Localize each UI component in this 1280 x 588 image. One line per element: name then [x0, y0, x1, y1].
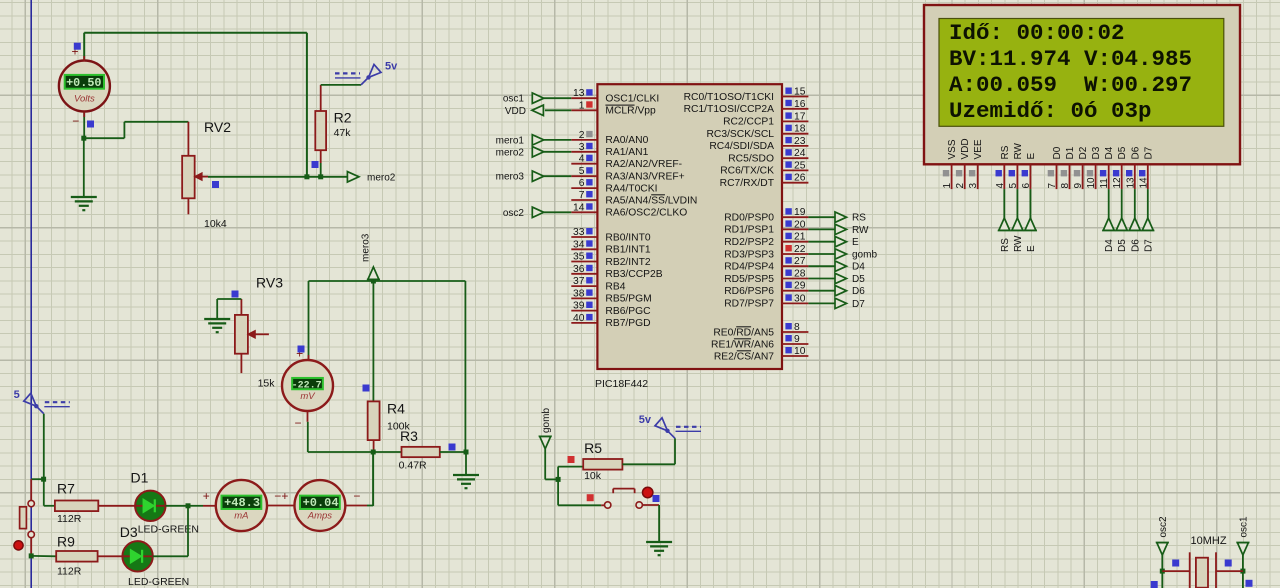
svg-text:gomb: gomb: [541, 408, 552, 433]
svg-text:LED-GREEN: LED-GREEN: [138, 524, 199, 536]
svg-text:RD5/PSP5: RD5/PSP5: [724, 274, 774, 285]
svg-text:−: −: [353, 489, 360, 503]
svg-text:RS: RS: [1000, 145, 1011, 159]
svg-text:mero1: mero1: [496, 135, 525, 146]
svg-text:D4: D4: [1104, 239, 1115, 252]
svg-text:osc2: osc2: [1158, 516, 1169, 538]
svg-text:RS: RS: [852, 213, 866, 224]
svg-text:3: 3: [968, 183, 979, 189]
svg-text:11: 11: [1099, 178, 1110, 189]
svg-text:RB2/INT2: RB2/INT2: [605, 257, 650, 268]
svg-text:D4: D4: [852, 262, 865, 273]
svg-text:−: −: [274, 489, 281, 503]
svg-text:+0.50: +0.50: [66, 76, 101, 90]
svg-text:RD4/PSP4: RD4/PSP4: [724, 262, 774, 273]
svg-text:1: 1: [942, 183, 953, 189]
svg-text:RB0/INT0: RB0/INT0: [605, 232, 650, 243]
svg-text:5: 5: [14, 389, 20, 401]
svg-text:osc1: osc1: [1238, 516, 1249, 538]
svg-text:12: 12: [1112, 177, 1123, 189]
svg-text:+: +: [281, 489, 288, 503]
svg-text:RD2/PSP2: RD2/PSP2: [724, 237, 774, 248]
svg-text:19: 19: [794, 207, 806, 218]
svg-text:D0: D0: [1052, 146, 1063, 159]
svg-text:Uzemidő: 0ó 03p: Uzemidő: 0ó 03p: [949, 98, 1152, 124]
svg-text:osc2: osc2: [503, 208, 525, 219]
svg-text:RA4/T0CKI: RA4/T0CKI: [605, 183, 657, 194]
svg-text:mero2: mero2: [496, 147, 525, 158]
svg-text:RB1/INT1: RB1/INT1: [605, 245, 650, 256]
svg-text:8: 8: [794, 322, 800, 333]
svg-text:38: 38: [573, 288, 585, 299]
svg-text:4: 4: [579, 154, 585, 165]
svg-text:RC7/RX/DT: RC7/RX/DT: [720, 178, 775, 189]
svg-text:VDD: VDD: [960, 138, 971, 159]
svg-text:40: 40: [573, 313, 585, 324]
svg-text:23: 23: [794, 136, 806, 147]
svg-text:D5: D5: [1117, 146, 1128, 159]
svg-text:14: 14: [1138, 177, 1149, 189]
svg-text:RW: RW: [1013, 235, 1024, 252]
svg-text:Volts: Volts: [74, 93, 95, 104]
svg-text:A:00.059 W:00.297: A:00.059 W:00.297: [949, 72, 1192, 98]
svg-text:7: 7: [1047, 183, 1058, 189]
svg-text:D5: D5: [1117, 239, 1128, 252]
svg-text:VSS: VSS: [947, 139, 958, 159]
svg-text:R4: R4: [387, 401, 405, 417]
svg-text:RW: RW: [1013, 142, 1024, 159]
svg-text:D7: D7: [1143, 239, 1154, 252]
svg-text:D3: D3: [120, 524, 138, 540]
svg-text:39: 39: [573, 301, 585, 312]
svg-text:D6: D6: [1130, 146, 1141, 159]
svg-text:4: 4: [995, 183, 1006, 189]
svg-text:D1: D1: [1065, 146, 1076, 159]
svg-text:15k: 15k: [258, 378, 276, 390]
svg-text:2: 2: [955, 183, 966, 189]
svg-text:RV2: RV2: [204, 119, 231, 135]
svg-text:RA5/AN4/SS/LVDIN: RA5/AN4/SS/LVDIN: [605, 195, 697, 206]
svg-text:25: 25: [794, 160, 806, 171]
svg-text:RW: RW: [852, 225, 869, 236]
svg-text:24: 24: [794, 148, 806, 159]
svg-text:1: 1: [579, 100, 585, 111]
svg-text:10k: 10k: [584, 470, 602, 482]
svg-text:112R: 112R: [57, 566, 82, 578]
svg-text:+0.04: +0.04: [303, 496, 339, 510]
svg-text:BV:11.974 V:04.985: BV:11.974 V:04.985: [949, 46, 1192, 72]
svg-text:RC6/TX/CK: RC6/TX/CK: [720, 166, 774, 177]
svg-text:RS: RS: [1000, 238, 1011, 252]
svg-text:E: E: [852, 237, 859, 248]
svg-text:RE2/CS/AN7: RE2/CS/AN7: [714, 351, 774, 362]
svg-text:27: 27: [794, 256, 806, 267]
svg-text:D3: D3: [1091, 146, 1102, 159]
svg-text:18: 18: [794, 124, 806, 135]
svg-text:LED-GREEN: LED-GREEN: [128, 576, 189, 588]
svg-text:RA1/AN1: RA1/AN1: [605, 147, 648, 158]
svg-text:RA6/OSC2/CLKO: RA6/OSC2/CLKO: [605, 208, 687, 219]
svg-text:RC2/CCP1: RC2/CCP1: [723, 117, 774, 128]
svg-text:mV: mV: [300, 391, 316, 402]
svg-text:5v: 5v: [385, 60, 398, 72]
svg-text:D6: D6: [1130, 239, 1141, 252]
svg-text:9: 9: [1073, 183, 1084, 189]
svg-text:5v: 5v: [639, 414, 652, 426]
svg-text:RV3: RV3: [256, 275, 283, 291]
svg-text:D2: D2: [1078, 146, 1089, 159]
svg-text:MCLR/Vpp: MCLR/Vpp: [605, 106, 656, 117]
svg-text:9: 9: [794, 334, 800, 345]
svg-text:RD7/PSP7: RD7/PSP7: [724, 299, 774, 310]
svg-text:RC3/SCK/SCL: RC3/SCK/SCL: [706, 129, 774, 140]
svg-text:−: −: [294, 416, 301, 430]
svg-text:RD1/PSP1: RD1/PSP1: [724, 225, 774, 236]
svg-text:22: 22: [794, 244, 806, 255]
svg-text:E: E: [1026, 153, 1037, 160]
svg-text:47k: 47k: [334, 127, 352, 139]
svg-text:RC5/SDO: RC5/SDO: [728, 154, 774, 165]
svg-text:16: 16: [794, 99, 806, 110]
svg-text:13: 13: [1125, 177, 1136, 189]
svg-text:36: 36: [573, 264, 585, 275]
svg-text:mero2: mero2: [367, 172, 396, 183]
svg-text:10: 10: [794, 346, 806, 357]
svg-text:E: E: [1026, 245, 1037, 252]
svg-text:D4: D4: [1104, 146, 1115, 159]
svg-text:R2: R2: [334, 110, 352, 126]
svg-text:R9: R9: [57, 534, 75, 550]
svg-text:28: 28: [794, 269, 806, 280]
svg-text:RA3/AN3/VREF+: RA3/AN3/VREF+: [605, 172, 684, 183]
svg-text:D1: D1: [131, 470, 149, 486]
svg-text:RD6/PSP6: RD6/PSP6: [724, 286, 774, 297]
svg-text:5: 5: [1008, 183, 1019, 189]
svg-text:26: 26: [794, 173, 806, 184]
svg-text:mero3: mero3: [496, 172, 525, 183]
svg-text:RD3/PSP3: RD3/PSP3: [724, 249, 774, 260]
svg-text:5: 5: [579, 166, 585, 177]
svg-text:RC1/T1OSI/CCP2A: RC1/T1OSI/CCP2A: [684, 104, 775, 115]
svg-text:35: 35: [573, 252, 585, 263]
svg-text:13: 13: [573, 88, 585, 99]
svg-text:RB6/PGC: RB6/PGC: [605, 306, 651, 317]
svg-text:21: 21: [794, 232, 806, 243]
svg-text:mero3: mero3: [361, 233, 372, 262]
svg-text:RA2/AN2/VREF-: RA2/AN2/VREF-: [605, 159, 682, 170]
svg-text:RA0/AN0: RA0/AN0: [605, 135, 648, 146]
svg-text:33: 33: [573, 227, 585, 238]
svg-text:Amps: Amps: [307, 510, 333, 521]
svg-text:D7: D7: [1143, 146, 1154, 159]
svg-text:RE0/RD/AN5: RE0/RD/AN5: [713, 327, 774, 338]
svg-text:RD0/PSP0: RD0/PSP0: [724, 213, 774, 224]
svg-text:10k4: 10k4: [204, 218, 227, 230]
svg-text:RE1/WR/AN6: RE1/WR/AN6: [711, 339, 774, 350]
svg-text:Idő: 00:00:02: Idő: 00:00:02: [949, 20, 1125, 46]
svg-text:6: 6: [1021, 183, 1032, 189]
svg-text:RB3/CCP2B: RB3/CCP2B: [605, 269, 662, 280]
svg-text:RB5/PGM: RB5/PGM: [605, 294, 651, 305]
svg-text:R3: R3: [400, 428, 418, 444]
svg-text:34: 34: [573, 239, 585, 250]
svg-text:+48.3: +48.3: [224, 496, 260, 510]
svg-text:gomb: gomb: [852, 250, 877, 261]
svg-text:D6: D6: [852, 286, 865, 297]
svg-text:RB7/PGD: RB7/PGD: [605, 318, 650, 329]
svg-text:osc1: osc1: [503, 94, 525, 105]
svg-text:6: 6: [579, 178, 585, 189]
svg-text:29: 29: [794, 281, 806, 292]
svg-text:8: 8: [1060, 183, 1071, 189]
svg-text:R5: R5: [584, 440, 602, 456]
svg-text:2: 2: [579, 130, 585, 141]
svg-text:30: 30: [794, 293, 806, 304]
svg-text:37: 37: [573, 276, 585, 287]
svg-text:15: 15: [794, 87, 806, 98]
svg-text:RC4/SDI/SDA: RC4/SDI/SDA: [709, 141, 774, 152]
svg-text:−: −: [72, 114, 79, 128]
svg-text:+: +: [203, 489, 210, 503]
svg-text:10MHZ: 10MHZ: [1191, 535, 1227, 547]
svg-text:14: 14: [573, 202, 585, 213]
svg-text:RB4: RB4: [605, 281, 625, 292]
svg-text:VEE: VEE: [973, 139, 984, 159]
svg-text:112R: 112R: [57, 513, 82, 525]
svg-text:3: 3: [579, 142, 585, 153]
svg-text:20: 20: [794, 219, 806, 230]
svg-text:D5: D5: [852, 274, 865, 285]
svg-text:RC0/T1OSO/T1CKI: RC0/T1OSO/T1CKI: [684, 92, 774, 103]
svg-text:mA: mA: [234, 510, 248, 521]
svg-text:10: 10: [1086, 177, 1097, 189]
svg-text:OSC1/CLKI: OSC1/CLKI: [605, 94, 659, 105]
svg-text:VDD: VDD: [505, 106, 526, 117]
svg-text:R7: R7: [57, 481, 75, 497]
svg-text:D7: D7: [852, 299, 865, 310]
svg-text:0.47R: 0.47R: [399, 460, 427, 472]
svg-text:7: 7: [579, 190, 585, 201]
svg-text:PIC18F442: PIC18F442: [595, 378, 648, 390]
svg-text:17: 17: [794, 111, 806, 122]
